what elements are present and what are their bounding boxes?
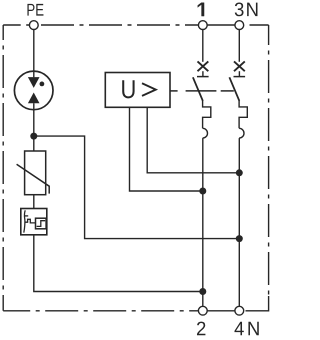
voltage monitor U> box	[105, 73, 170, 108]
greater-than glyph of U>	[142, 83, 156, 96]
enclosure boundary: bottom-right solid corner segment	[246, 296, 269, 311]
enclosure boundary: top dash-dot segment PE to terminal 1	[41, 24, 198, 26]
label N (bottom)	[248, 322, 258, 335]
spark gap upper electrode arrow	[28, 77, 40, 88]
mechanical linkage dash from U> box	[170, 90, 177, 92]
isolating device inner step symbol	[37, 221, 46, 227]
switch S1 lower contact and thermal release notch	[203, 100, 211, 128]
wire switch S1 to terminal 2	[202, 138, 204, 306]
U> output wire to N conductor	[147, 107, 239, 173]
wire spark gap to varistor	[33, 103, 35, 151]
enclosure boundary: bottom dash-dot segment	[3, 310, 198, 312]
switch S1 blade	[193, 77, 203, 101]
junction node A below spark gap	[30, 133, 37, 140]
label U of U>	[122, 80, 134, 98]
switch S2 lower contact and thermal release notch	[239, 100, 247, 128]
label N (top)	[247, 3, 257, 16]
wire node A to N conductor	[34, 136, 240, 239]
wire terminal 1 to disconnector	[202, 30, 204, 62]
disconnector contact bar (N)	[234, 76, 246, 78]
junction dot on L conductor (upper)	[199, 188, 206, 195]
label PE	[27, 4, 43, 16]
switch S2 blade	[229, 77, 239, 101]
wire isolating device down to L conductor	[34, 235, 203, 292]
thermal disconnector X mark (L)	[198, 61, 209, 71]
junction dot on N conductor (upper)	[236, 169, 243, 176]
enclosure boundary: right dash-dot border	[268, 25, 270, 296]
terminal 2	[198, 306, 207, 315]
label 4	[234, 322, 243, 335]
enclosure boundary: bottom solid segment terminal 4 to 2	[207, 310, 235, 312]
terminal 3 N	[235, 21, 244, 30]
mechanical linkage bar to switch S2	[221, 90, 234, 92]
spark gap trigger dot	[40, 82, 45, 87]
disconnector stub (L)	[202, 71, 204, 76]
wire varistor to isolating device	[33, 195, 35, 209]
wire terminal 3 to disconnector	[238, 30, 240, 62]
junction dot on N conductor (mid)	[236, 235, 243, 242]
isolating device impulse waveform	[24, 210, 25, 232]
varistor diagonal stroke	[17, 164, 50, 193]
isolating device waveform axis tick	[24, 215, 28, 217]
terminal 1	[198, 21, 207, 30]
enclosure boundary: top-left dash-dot segment	[3, 24, 29, 26]
label 1	[198, 3, 204, 16]
terminal 4 N	[235, 306, 244, 315]
terminal PE	[29, 21, 38, 30]
enclosure boundary: top-right solid segment	[250, 24, 269, 26]
U> output wire to L conductor	[130, 107, 203, 191]
surge isolating device box	[21, 209, 47, 235]
enclosure boundary: left dash-dot border	[2, 25, 4, 311]
label 2	[197, 322, 205, 336]
spark gap F1 circle	[14, 71, 53, 110]
disconnector contact bar (L)	[197, 76, 209, 78]
isolating device inner box	[36, 218, 47, 229]
label 3	[235, 2, 244, 16]
switch S1 magnetic release arc	[203, 128, 208, 138]
enclosure boundary: top solid segment terminal 1 to 3	[207, 24, 235, 26]
disconnector stub (N)	[238, 71, 240, 76]
junction dot on L conductor (bottom)	[199, 288, 206, 295]
isolating device staircase link	[25, 219, 35, 223]
switch S2 magnetic release arc	[239, 128, 244, 138]
wire PE terminal to spark gap	[33, 30, 35, 78]
varistor RV body	[25, 151, 46, 195]
thermal disconnector X mark (N)	[234, 61, 245, 71]
wire switch S2 to terminal 4	[238, 138, 240, 306]
spark gap lower electrode arrow	[28, 93, 40, 104]
mechanical linkage bar through switch S1	[186, 90, 217, 92]
